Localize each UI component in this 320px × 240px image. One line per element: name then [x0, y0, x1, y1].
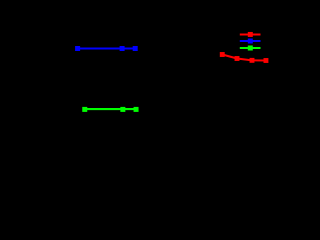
legend green line — [240, 47, 261, 49]
legend blue line — [240, 40, 261, 42]
green series marker 1 — [82, 107, 87, 112]
red series marker 4 — [264, 58, 269, 63]
green series marker 3 — [134, 107, 139, 112]
blue series marker 1 — [75, 46, 80, 51]
legend green marker — [248, 46, 253, 51]
red series marker 2 — [235, 56, 240, 61]
blue series marker 3 — [133, 46, 138, 51]
red series marker 3 — [250, 58, 255, 63]
blue series line — [78, 47, 136, 49]
red series line — [222, 55, 266, 61]
blue series marker 2 — [120, 46, 125, 51]
green series marker 2 — [120, 107, 125, 112]
legend red marker — [248, 32, 253, 37]
red series marker 1 — [220, 52, 225, 57]
legend blue marker — [248, 39, 253, 44]
legend red line — [240, 33, 261, 35]
green series line — [85, 108, 136, 110]
